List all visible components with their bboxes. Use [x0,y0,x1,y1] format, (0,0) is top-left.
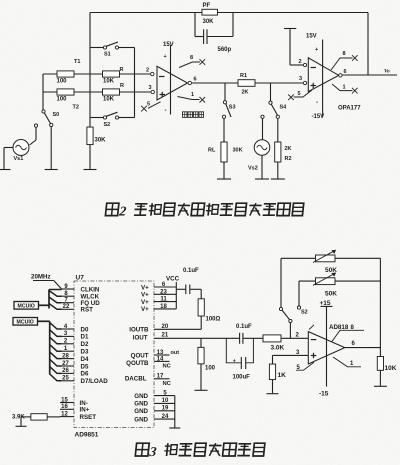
svg-text:-: - [165,108,167,114]
svg-text:13: 13 [157,350,164,356]
svg-text:Vs2: Vs2 [248,166,258,172]
svg-text:CLKIN: CLKIN [81,286,100,293]
svg-text:28: 28 [62,353,69,359]
svg-text:V+: V+ [141,292,149,299]
svg-text:QOUT: QOUT [131,352,149,359]
svg-text:D3: D3 [81,349,89,356]
svg-text:6: 6 [194,77,197,83]
svg-text:5: 5 [147,102,150,108]
svg-text:20: 20 [162,324,169,330]
svg-text:100Ω: 100Ω [206,316,221,322]
svg-text:IN+: IN+ [80,407,90,414]
svg-text:-15: -15 [319,391,329,398]
svg-text:30K: 30K [233,148,243,154]
svg-text:V+: V+ [141,299,149,306]
svg-text:NC: NC [163,381,172,387]
svg-text:D0: D0 [81,326,89,333]
svg-text:VCC: VCC [166,276,180,283]
svg-text:0.1uF: 0.1uF [236,324,252,330]
svg-text:T1: T1 [74,59,80,65]
svg-text:8: 8 [343,51,346,57]
svg-text:V+: V+ [141,284,149,291]
svg-text:R: R [120,67,124,73]
svg-text:1: 1 [191,92,194,98]
svg-text:3: 3 [299,76,302,82]
svg-text:26: 26 [62,368,69,374]
svg-text:2K: 2K [285,146,292,152]
svg-text:1K: 1K [278,372,287,379]
svg-text:15V: 15V [163,42,174,48]
svg-text:IOUT: IOUT [133,334,148,341]
svg-text:15: 15 [61,397,68,403]
svg-text:Vo: Vo [384,69,390,75]
svg-text:1: 1 [343,85,346,91]
svg-text:2: 2 [146,68,149,74]
svg-text:23: 23 [160,289,167,295]
svg-text:10K: 10K [103,79,115,85]
svg-text:25: 25 [62,376,69,382]
svg-text:D2: D2 [81,341,89,348]
svg-text:OPA177: OPA177 [338,106,361,112]
svg-text:0.1uF: 0.1uF [183,268,199,274]
svg-text:100: 100 [205,365,216,371]
svg-text:S1: S1 [104,52,111,58]
svg-text:Vs1: Vs1 [14,156,24,162]
svg-text:+: + [315,47,318,53]
svg-text:D6: D6 [81,371,89,378]
svg-text:100: 100 [57,79,68,85]
svg-text:+: + [164,54,167,60]
svg-text:IOUTB: IOUTB [129,326,149,333]
svg-text:14: 14 [157,356,164,362]
svg-text:R1: R1 [240,73,247,79]
svg-text:V+: V+ [141,306,149,313]
svg-text:8: 8 [190,55,193,61]
svg-text:30K: 30K [95,138,107,144]
svg-text:2: 2 [299,59,302,65]
svg-text:GND: GND [134,416,148,423]
svg-text:MCUIO: MCUIO [17,320,34,326]
svg-text:30K: 30K [203,19,215,25]
svg-text:RL: RL [208,148,216,154]
svg-text:12: 12 [61,411,68,417]
svg-text:2K: 2K [242,90,249,96]
svg-text:D1: D1 [81,334,89,341]
svg-text:10K: 10K [103,97,115,103]
svg-text:18: 18 [160,304,167,310]
svg-text:100: 100 [57,97,68,103]
svg-text:RST: RST [81,307,94,314]
svg-text:10K: 10K [385,365,397,372]
svg-text:21: 21 [162,332,169,338]
svg-text:R2: R2 [285,156,292,162]
svg-text:NC: NC [163,363,172,369]
svg-text:5: 5 [298,91,301,97]
svg-text:R: R [120,83,124,89]
svg-text:24: 24 [162,414,169,420]
svg-text:PF: PF [203,3,211,9]
svg-text:17: 17 [157,374,164,380]
svg-text:GND: GND [134,408,148,415]
svg-text:GND: GND [134,393,148,400]
svg-text:D5: D5 [81,363,89,370]
svg-text:S4: S4 [280,105,288,111]
svg-text:out: out [171,350,180,356]
svg-text:27: 27 [62,361,69,367]
svg-text:560p: 560p [218,47,232,53]
svg-text:10: 10 [162,398,169,404]
svg-text:QOUTB: QOUTB [126,360,149,367]
svg-text:+15: +15 [320,300,331,307]
svg-text:MCUIO: MCUIO [18,304,35,310]
svg-text:100uF: 100uF [233,374,251,380]
svg-text:T2: T2 [73,105,79,111]
svg-text:AD9851: AD9851 [75,432,99,439]
svg-text:11: 11 [160,297,167,303]
svg-text:3.0K: 3.0K [271,345,285,352]
svg-text:50K: 50K [325,290,337,297]
svg-text:S0: S0 [53,112,60,118]
svg-text:U7: U7 [76,275,85,282]
svg-text:D7/LOAD: D7/LOAD [81,378,109,385]
svg-text:3: 3 [149,85,152,91]
svg-text:16: 16 [61,404,68,410]
svg-text:S2: S2 [104,122,111,128]
svg-text:-15V: -15V [312,114,325,120]
svg-text:D4: D4 [81,356,89,363]
svg-text:RSET: RSET [80,414,97,421]
svg-text:22: 22 [63,304,70,310]
svg-text:DACBL: DACBL [125,376,147,383]
svg-text:6: 6 [344,69,347,75]
svg-text:20MHz: 20MHz [31,273,51,280]
svg-text:-: - [316,100,318,106]
svg-text:19: 19 [162,406,169,412]
svg-text:GND: GND [134,401,148,408]
svg-text:15V: 15V [306,34,317,40]
svg-text:S3: S3 [229,105,236,111]
svg-text:+: + [233,358,236,364]
svg-text:S2: S2 [301,310,308,316]
